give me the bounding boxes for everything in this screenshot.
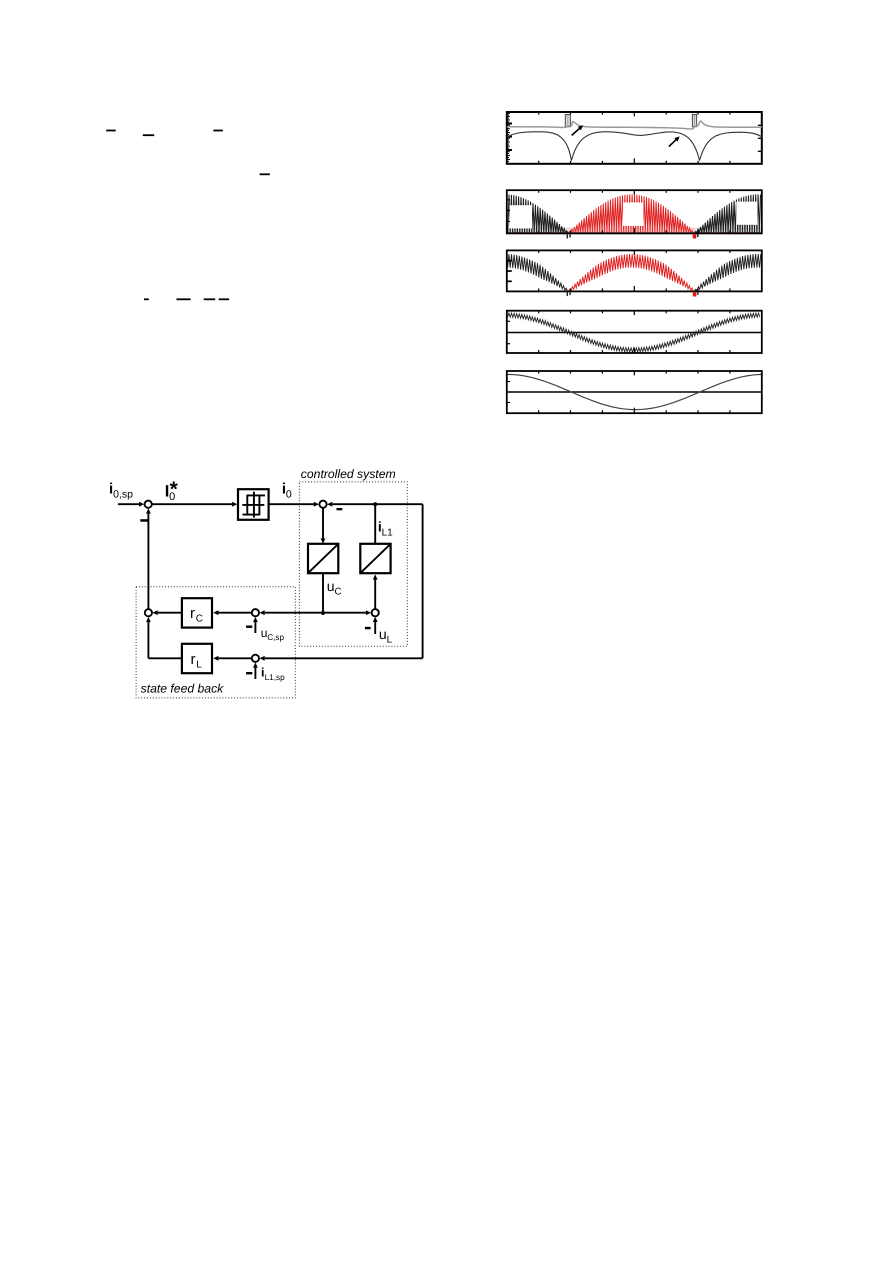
svg-text:L: L (387, 634, 393, 645)
svg-text:u: u (379, 626, 387, 642)
svg-text:*: * (170, 478, 179, 501)
svg-text:L1,sp: L1,sp (265, 673, 285, 682)
svg-text:u: u (327, 578, 335, 594)
svg-text:C: C (335, 586, 342, 597)
svg-text:r: r (190, 605, 195, 622)
svg-text:L: L (196, 659, 202, 670)
svg-text:controlled system: controlled system (301, 467, 396, 481)
svg-text:C,sp: C,sp (267, 633, 284, 642)
svg-text:C: C (196, 614, 203, 625)
svg-text:0: 0 (286, 488, 292, 500)
svg-text:L1: L1 (382, 527, 394, 538)
svg-text:state feed back: state feed back (141, 682, 225, 696)
svg-text:0,sp: 0,sp (113, 488, 133, 500)
svg-text:r: r (191, 651, 196, 668)
